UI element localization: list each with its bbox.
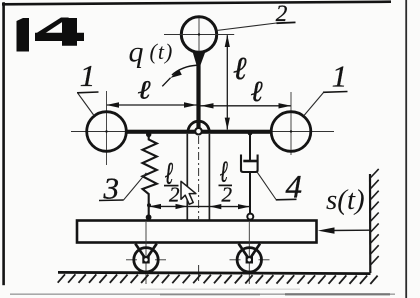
- wall hatching: [371, 169, 379, 265]
- right circle centerlines: [290, 92, 292, 155]
- s(t) kinematic arrow: [330, 229, 370, 231]
- pivot arc: [188, 121, 209, 132]
- q(t) rotation arrow: [172, 65, 197, 75]
- mass circle 1 (right): [271, 112, 311, 152]
- l/2 fraction label (left): [165, 156, 173, 191]
- mass circle 2 (top): [181, 17, 216, 52]
- circle 2 centerlines: [198, 18, 200, 52]
- damper 4: [248, 131, 253, 136]
- pendulum rod: [196, 52, 200, 134]
- cart body: [77, 221, 317, 243]
- horizontal T bar: [125, 130, 273, 134]
- horizontal dimension l (left): [107, 104, 197, 106]
- pivot bracket column: [186, 134, 188, 220]
- svg-text:q: q: [129, 36, 144, 69]
- mouse cursor: [181, 181, 196, 204]
- ground hatching: [58, 274, 378, 284]
- svg-text:(t): (t): [150, 39, 174, 64]
- frame top border: [2, 0, 391, 5]
- left wheel centerlines: [145, 222, 147, 284]
- svg-text:2: 2: [222, 183, 233, 207]
- l/2 dimension (left): [149, 205, 250, 207]
- svg-text:1: 1: [332, 59, 348, 94]
- left wheel: [134, 248, 158, 272]
- svg-text:ℓ: ℓ: [233, 50, 247, 86]
- bottom gray scan line: [10, 293, 395, 295]
- l/2 dimension (right) arrows: [210, 204, 222, 209]
- wedge joint under circle 2: [193, 52, 206, 66]
- center dash-dot line: [198, 136, 200, 219]
- ground line: [58, 272, 371, 273]
- spring 3: [146, 132, 151, 137]
- svg-text:s(t): s(t): [326, 184, 365, 216]
- svg-text:ℓ: ℓ: [138, 76, 151, 105]
- figure number 14: [17, 18, 85, 52]
- mass circle 1 (left): [87, 112, 127, 152]
- right wheel centerlines: [248, 222, 250, 284]
- vertical dimension l (rod length): [226, 35, 228, 129]
- svg-text:1: 1: [80, 58, 96, 93]
- frame left border: [2, 2, 5, 285]
- pivot pin: [195, 128, 202, 135]
- page right edge line: [405, 0, 407, 298]
- wall line: [369, 174, 371, 273]
- left circle centerlines: [106, 91, 108, 165]
- svg-text:2: 2: [169, 183, 180, 207]
- svg-text:ℓ: ℓ: [251, 76, 263, 108]
- l/2 fraction label (right): [220, 156, 228, 188]
- right wheel: [237, 248, 261, 272]
- horizontal dimension l (right): [201, 105, 292, 107]
